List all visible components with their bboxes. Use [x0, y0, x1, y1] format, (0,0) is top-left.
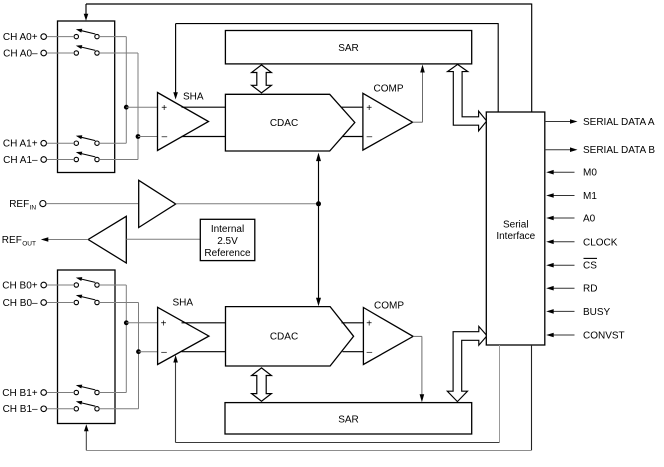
switch CH A1– — [74, 152, 99, 162]
svg-text:+: + — [161, 103, 167, 114]
wire CH B0+ to node B+ — [47, 284, 127, 286]
wire CH B0- to node B- — [47, 302, 139, 304]
terminal CH B0+ — [2, 280, 46, 291]
svg-text:COMP: COMP — [374, 300, 404, 311]
svg-text:Reference: Reference — [204, 248, 251, 259]
svg-text:2.5V: 2.5V — [217, 236, 238, 247]
switch CH A1+ — [74, 135, 99, 145]
wire: MUX A control loop from Serial Interface top — [84, 4, 532, 113]
wire SHA A out - — [182, 136, 226, 138]
svg-text:CONVST: CONVST — [583, 331, 625, 342]
wire CDAC A to COMP A - — [342, 136, 363, 138]
svg-text:REF: REF — [2, 235, 22, 246]
wire CH A0+ to node A+ — [47, 36, 127, 38]
switch CH B1– — [74, 401, 99, 411]
wire: SHA B control loop from Serial Interface bottom — [173, 345, 499, 443]
wire SHA B out - — [182, 351, 226, 353]
wire CDAC B to COMP B - — [343, 351, 364, 353]
wire vertical bus A- — [137, 53, 139, 160]
svg-text:BUSY: BUSY — [583, 307, 611, 318]
wire: SHA A control loop from Serial Interface top — [173, 23, 498, 112]
svg-text:SERIAL DATA B: SERIAL DATA B — [583, 145, 655, 156]
serial interface box — [486, 112, 545, 345]
svg-text:RD: RD — [583, 284, 597, 295]
svg-text:SAR: SAR — [338, 43, 359, 54]
bus arrow CDAC B / SAR B — [252, 368, 272, 401]
svg-text:CH A0–: CH A0– — [3, 48, 38, 59]
svg-text:Interface: Interface — [496, 231, 535, 242]
pin CONVST — [546, 331, 624, 342]
junction node B- — [136, 349, 157, 354]
pin A0 — [546, 214, 595, 225]
wire REFIN to buffer — [46, 203, 138, 205]
wire REF to CDAC B — [316, 204, 321, 306]
svg-text:–: – — [161, 347, 167, 358]
svg-text:–: – — [162, 131, 168, 142]
svg-text:CH B0–: CH B0– — [3, 298, 38, 309]
wire vertical bus B+ — [125, 285, 127, 393]
pin M0 — [546, 168, 597, 179]
pin M1 — [546, 191, 597, 202]
internal 2.5V reference box — [200, 219, 255, 260]
svg-text:M1: M1 — [583, 191, 597, 202]
CDAC B — [226, 307, 354, 366]
svg-text:REF: REF — [9, 199, 29, 210]
wire COMP A output to SAR A — [413, 65, 425, 123]
pin SERIAL DATA A — [545, 117, 655, 128]
svg-text:OUT: OUT — [22, 241, 36, 248]
wire REF rail — [176, 203, 319, 205]
wire REFOUT output — [41, 237, 88, 242]
terminal CH B1– — [3, 404, 47, 415]
bus arrow SAR A / CDAC A — [252, 65, 272, 93]
svg-text:A0: A0 — [583, 214, 596, 225]
svg-text:+: + — [161, 319, 167, 330]
switch CH A0– — [74, 45, 99, 55]
terminal CH B0– — [3, 298, 47, 309]
svg-text:SHA: SHA — [183, 92, 204, 103]
wire CH B1- to node B- — [47, 408, 139, 410]
wire CH A0- to node A- — [47, 52, 138, 54]
wire CH B1+ to node B+ — [47, 392, 127, 394]
svg-text:CLOCK: CLOCK — [583, 237, 618, 248]
svg-text:SERIAL DATA A: SERIAL DATA A — [583, 117, 655, 128]
terminal CH A0– — [3, 48, 46, 59]
op-amp SHA A — [158, 92, 209, 151]
switch CH A0+ — [74, 29, 99, 39]
terminal CH A0+ — [3, 32, 47, 43]
wire SHA A out + — [182, 106, 226, 108]
svg-text:–: – — [367, 347, 373, 358]
bus arrow SAR A / Serial Interface — [448, 64, 487, 130]
pin RD — [546, 284, 597, 295]
svg-text:CS: CS — [583, 261, 597, 272]
svg-text:Internal: Internal — [211, 224, 244, 235]
pin CLOCK — [546, 237, 618, 248]
svg-text:CH A0+: CH A0+ — [3, 32, 38, 43]
svg-text:CDAC: CDAC — [270, 331, 298, 342]
svg-text:SHA: SHA — [173, 298, 194, 309]
wire vertical bus B- — [138, 303, 140, 409]
terminal CH B1+ — [2, 388, 46, 399]
switch CH B1+ — [74, 385, 99, 395]
CDAC A — [225, 94, 354, 151]
svg-text:+: + — [366, 103, 372, 114]
svg-text:SAR: SAR — [338, 415, 359, 426]
switch CH B0+ — [74, 277, 99, 287]
svg-text:CH A1–: CH A1– — [3, 155, 38, 166]
svg-text:IN: IN — [30, 205, 37, 212]
pin BUSY — [546, 307, 610, 318]
junction node A- — [136, 134, 158, 139]
pin CS — [546, 258, 597, 271]
wire CH A1+ to node A+ — [47, 142, 127, 144]
bus arrow SAR B / Serial Interface — [447, 326, 487, 401]
svg-text:M0: M0 — [583, 168, 597, 179]
junction REF node — [316, 201, 321, 206]
comparator COMP A — [363, 84, 413, 151]
svg-text:CH B1+: CH B1+ — [2, 388, 37, 399]
op-amp REFIN buffer — [139, 180, 176, 227]
wire vertical bus A+ — [125, 37, 127, 144]
wire reference box to REFOUT buffer — [126, 238, 200, 240]
SAR B box — [225, 403, 472, 434]
svg-text:CH A1+: CH A1+ — [3, 139, 38, 150]
op-amp REFOUT buffer — [88, 216, 126, 263]
switch CH B0– — [74, 295, 99, 305]
comparator COMP B — [363, 300, 413, 364]
terminal CH A1– — [3, 155, 46, 166]
svg-text:+: + — [366, 319, 372, 330]
svg-text:Serial: Serial — [503, 220, 529, 231]
wire CH A1- to node A- — [47, 159, 138, 161]
pin SERIAL DATA B — [545, 145, 656, 156]
svg-text:CH B0+: CH B0+ — [2, 280, 37, 291]
wire COMP B output to SAR B — [413, 336, 424, 402]
svg-text:COMP: COMP — [374, 84, 404, 95]
wire REF to CDAC A — [316, 153, 321, 204]
terminal REFOUT — [2, 235, 36, 248]
wire: MUX B control loop from Serial Interface bottom — [84, 345, 532, 451]
wire CDAC B to COMP B + — [342, 322, 364, 324]
junction node A+ — [124, 105, 157, 110]
terminal REFIN — [9, 199, 46, 212]
svg-text:CDAC: CDAC — [270, 118, 298, 129]
mux A box — [58, 21, 115, 173]
wire CDAC A to COMP A + — [341, 106, 363, 108]
svg-text:CH B1–: CH B1– — [3, 404, 38, 415]
mux B box — [58, 270, 116, 424]
junction node B+ — [124, 320, 157, 325]
terminal CH A1+ — [3, 139, 47, 150]
SAR A box — [225, 31, 471, 64]
op-amp SHA B — [158, 298, 209, 365]
wire SHA B out + — [182, 322, 226, 324]
svg-text:–: – — [367, 132, 373, 143]
